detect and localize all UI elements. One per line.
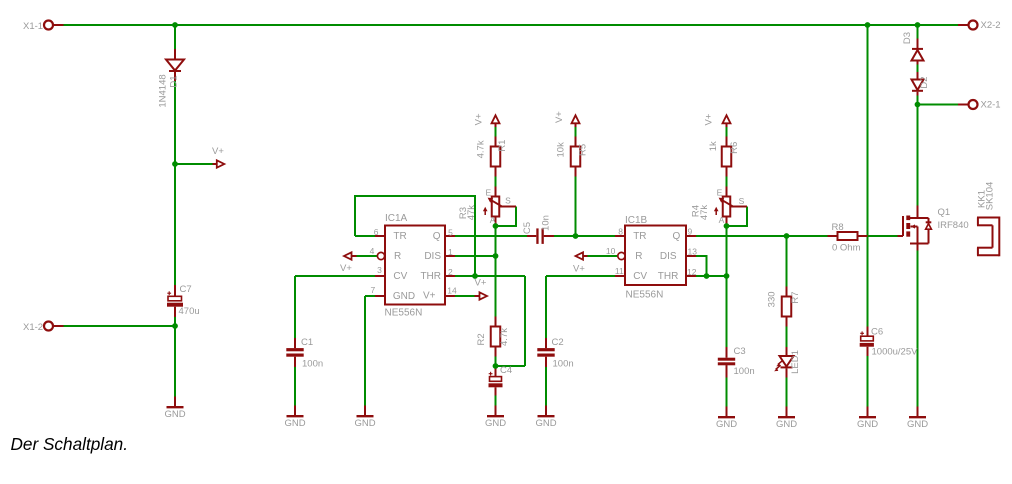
svg-text:4: 4: [370, 246, 375, 256]
svg-text:100n: 100n: [553, 359, 574, 370]
svg-text:330: 330: [767, 291, 778, 307]
svg-text:Q: Q: [433, 231, 441, 242]
svg-text:IC1B: IC1B: [625, 215, 648, 226]
svg-text:10: 10: [606, 246, 616, 256]
svg-text:R: R: [635, 251, 642, 262]
svg-text:X1-2: X1-2: [23, 322, 43, 333]
svg-text:D2: D2: [919, 76, 930, 88]
svg-text:X1-1: X1-1: [23, 21, 43, 32]
svg-text:C1: C1: [301, 337, 313, 348]
svg-text:R8: R8: [832, 222, 844, 233]
svg-text:R2: R2: [476, 333, 487, 345]
svg-text:GND: GND: [535, 418, 556, 429]
svg-text:V+: V+: [573, 264, 585, 275]
svg-text:TR: TR: [633, 231, 646, 242]
svg-text:X2-1: X2-1: [981, 100, 1001, 111]
svg-text:1: 1: [448, 247, 453, 257]
svg-text:Q: Q: [673, 231, 681, 242]
svg-text:E: E: [485, 187, 491, 197]
svg-text:V+: V+: [475, 278, 487, 289]
svg-text:DIS: DIS: [660, 251, 677, 262]
svg-text:12: 12: [687, 267, 697, 277]
svg-text:C7: C7: [180, 284, 192, 295]
svg-text:10n: 10n: [541, 215, 552, 231]
svg-text:D1: D1: [169, 75, 180, 87]
svg-text:GND: GND: [776, 419, 797, 430]
svg-text:470u: 470u: [179, 306, 200, 317]
svg-text:GND: GND: [907, 419, 928, 430]
svg-text:E: E: [717, 187, 723, 197]
svg-text:8: 8: [618, 227, 623, 237]
svg-text:V+: V+: [474, 113, 485, 125]
svg-text:14: 14: [447, 286, 457, 296]
svg-text:IC1A: IC1A: [385, 213, 408, 224]
svg-text:GND: GND: [284, 418, 305, 429]
svg-text:V+: V+: [703, 113, 714, 125]
svg-text:GND: GND: [716, 419, 737, 430]
svg-text:13: 13: [688, 247, 698, 257]
svg-text:6: 6: [374, 227, 379, 237]
svg-text:V+: V+: [340, 263, 352, 274]
svg-text:5: 5: [448, 228, 453, 238]
svg-text:GND: GND: [164, 409, 185, 420]
svg-text:S: S: [739, 196, 745, 206]
svg-text:C6: C6: [871, 327, 883, 338]
svg-text:D3: D3: [902, 32, 913, 44]
svg-text:2: 2: [448, 267, 453, 277]
svg-text:100n: 100n: [302, 359, 323, 370]
svg-text:IRF840: IRF840: [938, 220, 969, 231]
svg-text:TR: TR: [393, 231, 406, 242]
svg-text:A: A: [490, 215, 496, 225]
svg-text:Q1: Q1: [938, 207, 951, 218]
svg-text:GND: GND: [354, 418, 375, 429]
svg-text:GND: GND: [857, 419, 878, 430]
svg-text:R: R: [394, 251, 401, 262]
svg-text:V+: V+: [554, 111, 565, 123]
svg-text:Der Schaltplan.: Der Schaltplan.: [11, 434, 129, 454]
svg-text:1N4148: 1N4148: [158, 74, 169, 107]
svg-text:R6: R6: [729, 142, 740, 154]
svg-text:X2-2: X2-2: [981, 20, 1001, 31]
svg-text:CV: CV: [633, 271, 647, 282]
svg-text:NE556N: NE556N: [626, 290, 664, 301]
svg-text:V+: V+: [212, 146, 224, 157]
svg-text:9: 9: [688, 227, 693, 237]
svg-text:47k: 47k: [699, 205, 710, 221]
svg-text:4.7k: 4.7k: [499, 328, 510, 346]
svg-text:11: 11: [615, 266, 624, 276]
svg-text:NE556N: NE556N: [385, 308, 423, 319]
svg-text:S: S: [505, 195, 511, 205]
svg-text:C5: C5: [522, 222, 533, 234]
svg-text:47k: 47k: [466, 205, 477, 221]
svg-text:GND: GND: [485, 418, 506, 429]
svg-text:R1: R1: [497, 140, 508, 152]
svg-text:100n: 100n: [734, 366, 755, 377]
svg-text:DIS: DIS: [424, 251, 441, 262]
svg-text:C4: C4: [500, 365, 512, 376]
svg-text:SK104: SK104: [985, 182, 996, 211]
svg-text:V+: V+: [423, 291, 436, 302]
svg-text:THR: THR: [658, 271, 679, 282]
svg-text:0 Ohm: 0 Ohm: [832, 243, 861, 254]
svg-text:1k: 1k: [708, 141, 719, 151]
svg-text:CV: CV: [393, 271, 407, 282]
svg-text:4.7k: 4.7k: [476, 140, 487, 158]
svg-text:C2: C2: [552, 337, 564, 348]
svg-text:10k: 10k: [556, 142, 567, 158]
svg-text:THR: THR: [420, 271, 441, 282]
svg-text:1000u/25V: 1000u/25V: [872, 347, 919, 358]
svg-text:R7: R7: [790, 291, 801, 303]
svg-text:7: 7: [370, 285, 375, 295]
svg-text:R5: R5: [578, 144, 589, 156]
svg-text:GND: GND: [393, 291, 415, 302]
svg-text:3: 3: [377, 265, 382, 275]
svg-text:A: A: [719, 215, 725, 225]
svg-text:C3: C3: [734, 346, 746, 357]
svg-text:LED1: LED1: [790, 350, 801, 374]
